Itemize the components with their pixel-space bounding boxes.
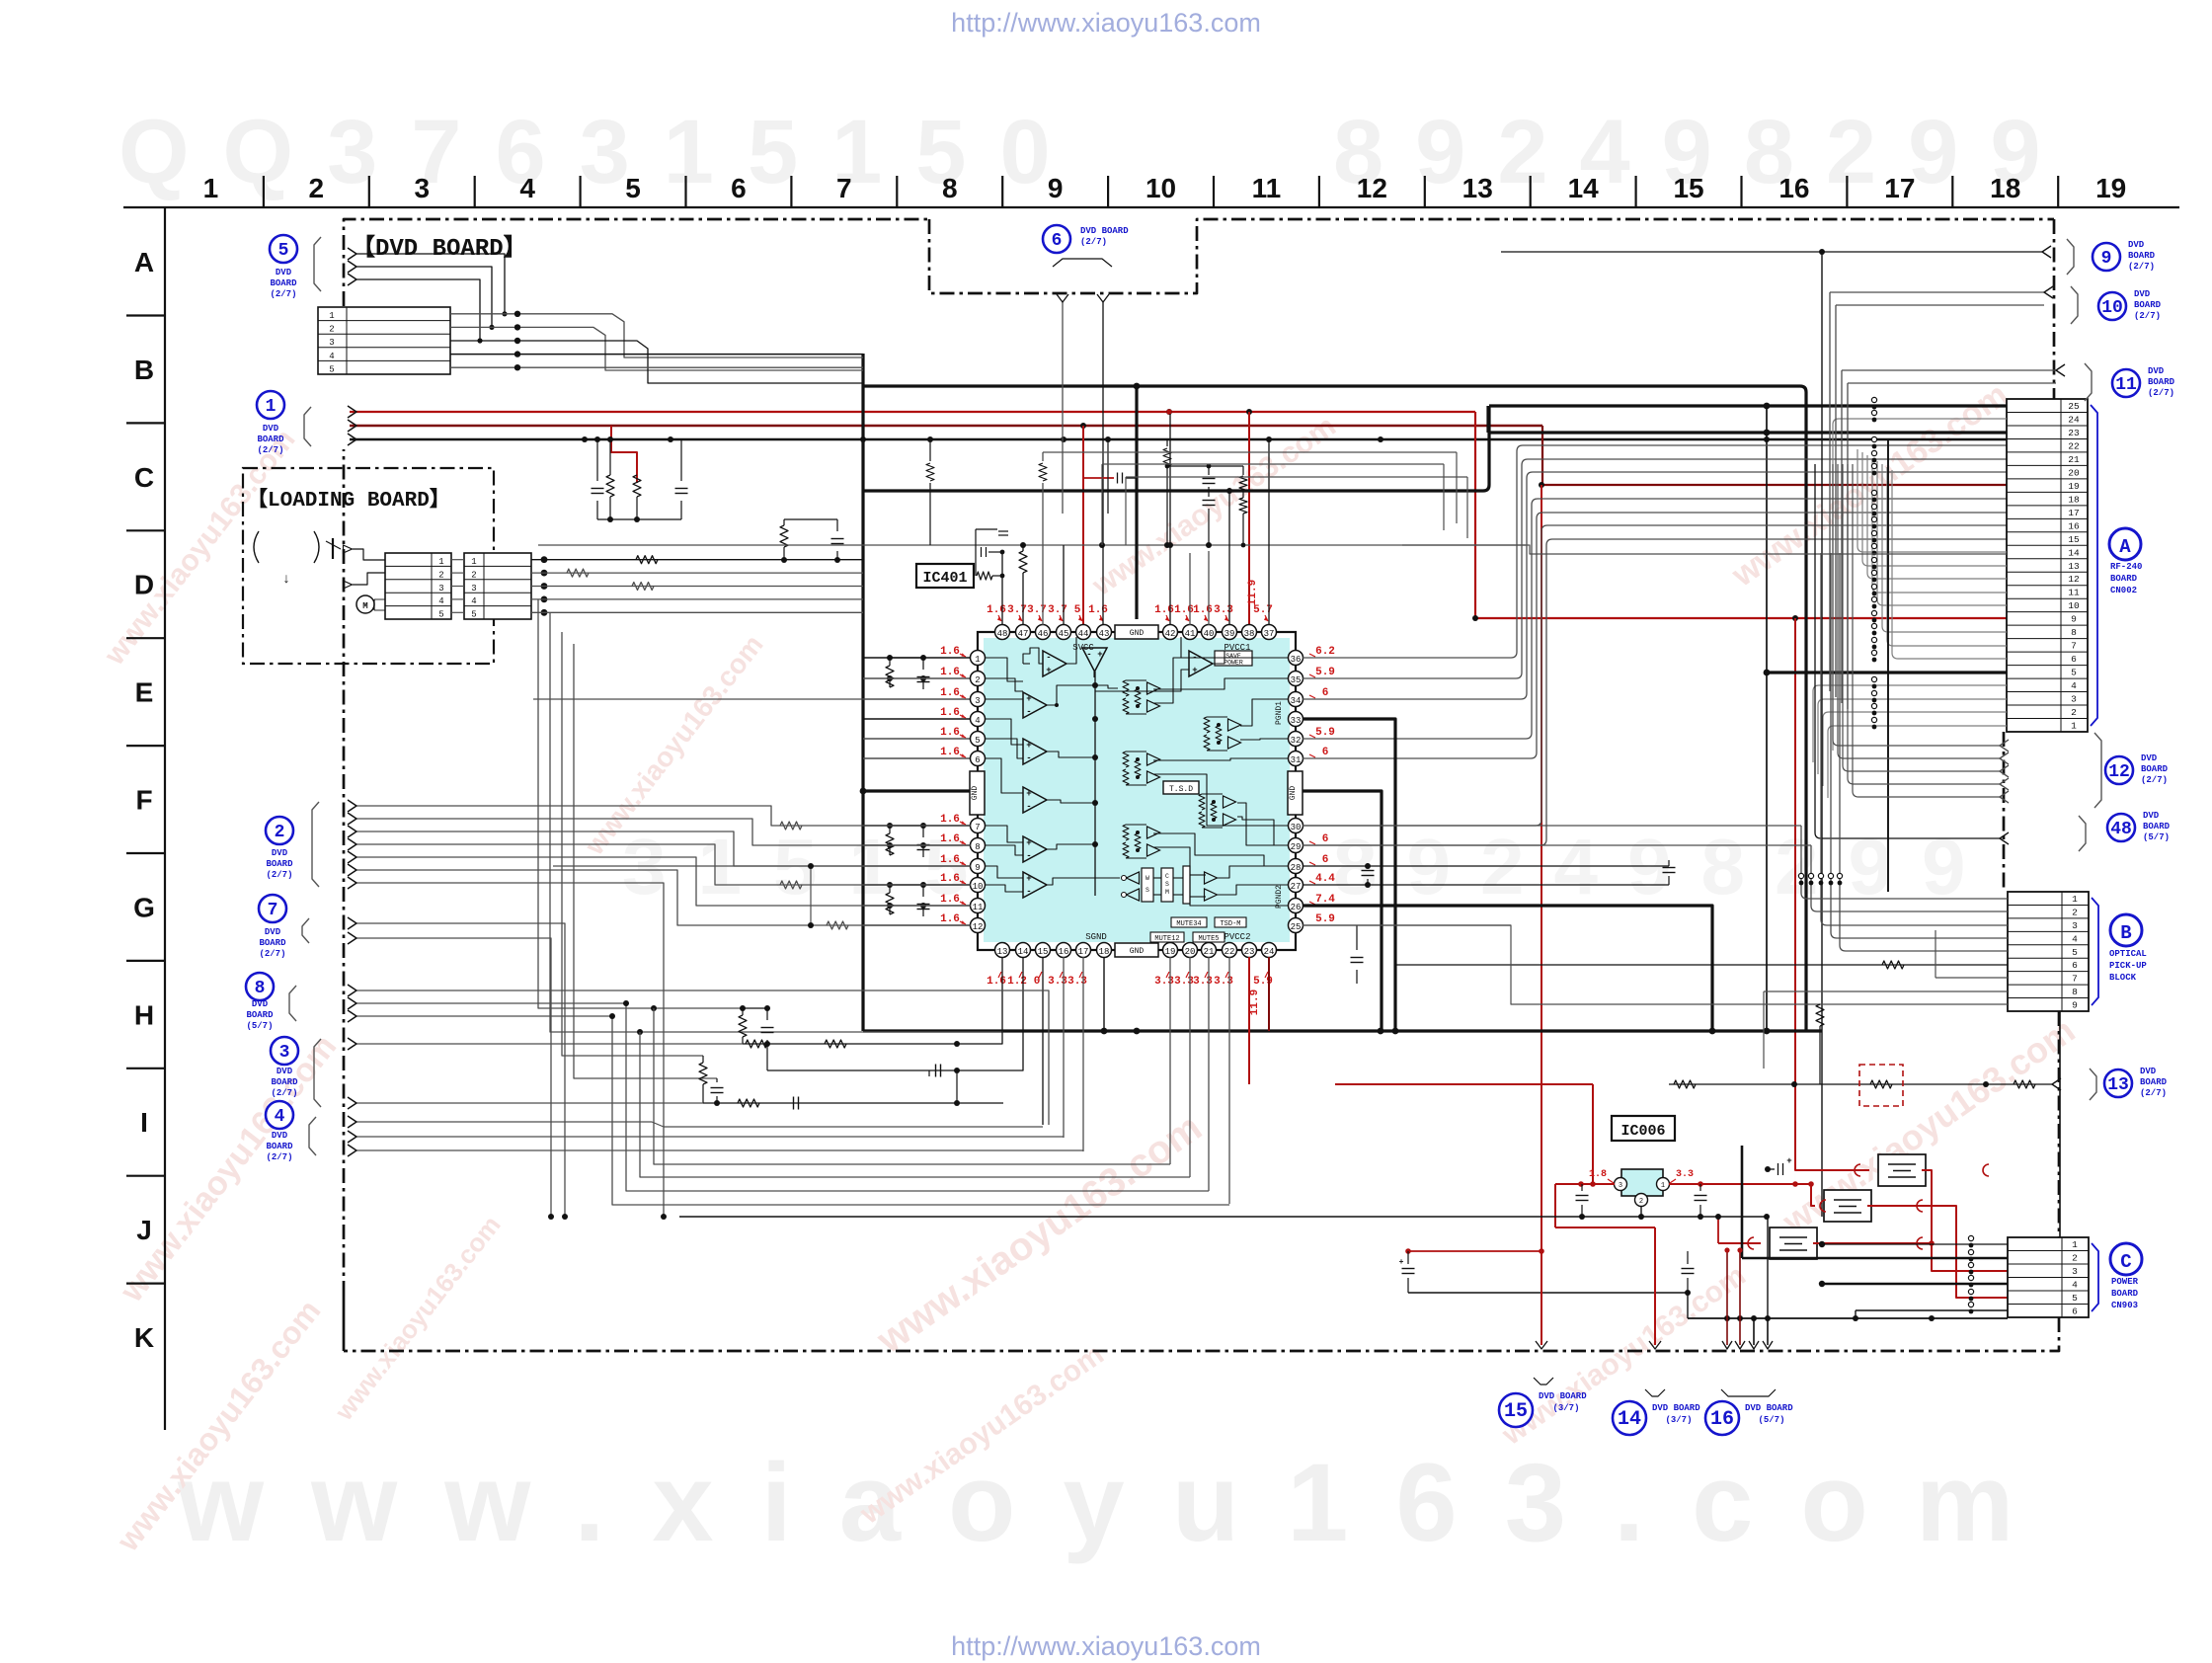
- svg-text:M: M: [362, 601, 367, 611]
- RC clusters below IC401: [742, 1008, 744, 1015]
- svg-text:1.6: 1.6: [940, 894, 960, 906]
- svg-text:4: 4: [2071, 680, 2077, 691]
- IC401 pin 38: [1242, 625, 1257, 640]
- svg-text:S: S: [1165, 881, 1169, 888]
- label 15 circled: [1499, 1393, 1533, 1427]
- svg-text:44: 44: [1078, 629, 1089, 639]
- svg-text:IC401: IC401: [922, 570, 967, 587]
- svg-text:A: A: [134, 247, 154, 277]
- svg-text:17: 17: [2068, 508, 2079, 518]
- svg-text:48: 48: [2110, 820, 2132, 839]
- svg-text:1.6: 1.6: [940, 913, 960, 925]
- wires bundle into connector A rows: [1857, 449, 1863, 552]
- svg-text:19: 19: [2095, 173, 2126, 203]
- wire label3 row2: [355, 1102, 703, 1104]
- svg-text:SGND: SGND: [1085, 932, 1107, 942]
- wire to label 48: [1815, 464, 1821, 838]
- svg-text:【DVD BOARD】: 【DVD BOARD】: [352, 234, 527, 263]
- thick wire right GND: [1303, 791, 1382, 1031]
- svg-text:27: 27: [1291, 882, 1302, 892]
- svg-text:4: 4: [438, 596, 443, 606]
- DAC slab: [1183, 866, 1190, 904]
- svg-text:14: 14: [1618, 1408, 1641, 1431]
- svg-text:23: 23: [2068, 428, 2080, 438]
- label 7 chevrons: [348, 917, 356, 929]
- svg-text:6: 6: [2072, 960, 2078, 971]
- svg-text:DVD: DVD: [252, 999, 269, 1009]
- svg-text:DVD BOARD: DVD BOARD: [1745, 1403, 1793, 1413]
- label 16 circled: [1705, 1401, 1739, 1435]
- svg-text:11: 11: [973, 903, 984, 912]
- label 3 chevrons: [348, 1038, 356, 1050]
- svg-text:1.6: 1.6: [940, 727, 960, 739]
- svg-text:A: A: [2119, 536, 2131, 558]
- svg-text:3: 3: [329, 338, 334, 348]
- top ruler with column numbers 1-19: [123, 206, 2179, 208]
- svg-text:3.3: 3.3: [1174, 976, 1194, 988]
- label 5 circled: [270, 235, 297, 263]
- svg-text:http://www.xiaoyu163.com: http://www.xiaoyu163.com: [951, 8, 1261, 38]
- IC401 pin 19: [1163, 943, 1178, 958]
- IC401 pin 35: [1289, 672, 1303, 686]
- svg-text:+: +: [1097, 650, 1102, 660]
- svg-text:5: 5: [1074, 604, 1081, 616]
- svg-text:BOARD: BOARD: [266, 1142, 293, 1151]
- svg-text:11.9: 11.9: [1249, 990, 1261, 1015]
- svg-text:20: 20: [2068, 467, 2080, 478]
- svg-text:G: G: [133, 892, 155, 922]
- IC401 pin 27: [1289, 878, 1303, 893]
- svg-text:1.6: 1.6: [987, 976, 1006, 988]
- IC401 SAVE POWER box: [1215, 651, 1252, 666]
- IC401 pin 8: [971, 838, 986, 853]
- IC401 pin 33: [1289, 712, 1303, 727]
- loading board connector pair: [385, 553, 451, 619]
- junction dots on buses: [1166, 409, 1172, 415]
- DVD board title: [352, 234, 527, 263]
- IC401 pin 31: [1289, 752, 1303, 766]
- svg-text:34: 34: [1291, 696, 1302, 706]
- IC401 pin 26: [1289, 899, 1303, 913]
- wire red riser to pin44: [1082, 426, 1084, 625]
- svg-text:(2/7): (2/7): [1080, 237, 1107, 247]
- svg-text:DVD: DVD: [2140, 1067, 2157, 1076]
- svg-text:7: 7: [2071, 641, 2077, 652]
- svg-text:1: 1: [1661, 1182, 1665, 1190]
- IC401 ref label box: [916, 564, 974, 588]
- svg-text:7: 7: [975, 823, 980, 832]
- internal node line: [1094, 672, 1096, 896]
- svg-text:38: 38: [1244, 629, 1255, 639]
- svg-text:6: 6: [1322, 854, 1329, 866]
- label 2 circled: [266, 817, 293, 844]
- wires above IC401: [538, 544, 1526, 546]
- svg-text:W: W: [1145, 875, 1149, 882]
- svg-text:J: J: [136, 1215, 152, 1245]
- svg-text:-: -: [1026, 753, 1031, 763]
- IC401 GND box bottom: [1115, 943, 1158, 957]
- IC401 pin 41: [1183, 625, 1198, 640]
- IC401 GND box top: [1115, 625, 1158, 639]
- IC401 pin 25: [1289, 918, 1303, 933]
- thick wire pin33: [1303, 719, 1395, 1031]
- svg-text:(3/7): (3/7): [1552, 1403, 1579, 1413]
- svg-text:-: -: [1046, 653, 1051, 663]
- svg-text:1.8: 1.8: [1589, 1169, 1607, 1180]
- svg-text:5.9: 5.9: [1315, 667, 1335, 678]
- connector A bracket: [2091, 405, 2097, 726]
- wire red path to connector A row 9: [1475, 412, 2007, 618]
- wire red riser x1818: [1794, 618, 1796, 1091]
- svg-text:+: +: [1026, 694, 1031, 704]
- label 9 circled: [2093, 243, 2120, 271]
- svg-text:9: 9: [975, 863, 980, 873]
- IC401 pin 9: [971, 859, 986, 874]
- connector C (POWER BOARD CN903): [2008, 1237, 2089, 1317]
- svg-text:1.6: 1.6: [940, 833, 960, 845]
- svg-text:PGND2: PGND2: [1275, 885, 1284, 909]
- IC401 pin 44: [1076, 625, 1091, 640]
- wires to labels 9-11: [1501, 251, 2042, 253]
- svg-text:2: 2: [975, 675, 980, 685]
- svg-text:17: 17: [1078, 947, 1089, 957]
- svg-text:28: 28: [1291, 863, 1302, 873]
- svg-text:19: 19: [1165, 947, 1176, 957]
- svg-text:4: 4: [329, 352, 334, 361]
- svg-text:6: 6: [2072, 1307, 2078, 1317]
- IC401 pin 4: [971, 712, 986, 727]
- red power distribution with EMI filters: [1794, 1170, 1796, 1184]
- svg-text:DVD: DVD: [272, 1131, 288, 1141]
- svg-text:16: 16: [1710, 1408, 1734, 1431]
- svg-text:1: 1: [471, 557, 476, 567]
- WS box: [1142, 868, 1153, 902]
- svg-text:BOARD: BOARD: [2143, 822, 2171, 831]
- svg-text:PICK-UP: PICK-UP: [2109, 961, 2147, 971]
- mixer cell 1232,742: [1228, 719, 1241, 731]
- svg-text:3.7: 3.7: [1007, 604, 1027, 616]
- svg-text:7.4: 7.4: [1315, 894, 1335, 906]
- svg-text:-: -: [1086, 650, 1091, 660]
- svg-text:2: 2: [2072, 1253, 2078, 1264]
- vertical line B-C right: [2059, 1011, 2061, 1237]
- svg-text:6: 6: [731, 173, 747, 203]
- wire thick net top: [863, 384, 1800, 387]
- svg-text:K: K: [134, 1322, 154, 1353]
- svg-text:19: 19: [2068, 481, 2080, 492]
- svg-text:1.6: 1.6: [987, 604, 1006, 616]
- IC401 pin 22: [1223, 943, 1237, 958]
- svg-text:B: B: [2120, 922, 2131, 944]
- gnd rail y1232: [679, 1216, 1768, 1218]
- thick wire pin26: [1303, 906, 1712, 1031]
- left ruler with row letters A-K: [164, 207, 166, 1430]
- svg-text:2: 2: [1639, 1198, 1643, 1206]
- svg-text:(2/7): (2/7): [257, 445, 283, 455]
- label 4 circled: [266, 1101, 293, 1129]
- svg-text:31: 31: [1291, 755, 1302, 765]
- svg-text:16: 16: [2068, 520, 2080, 531]
- svg-text:-: -: [1026, 707, 1031, 717]
- svg-text:12: 12: [2068, 574, 2080, 585]
- svg-text:E: E: [135, 677, 154, 708]
- IC401 pin 40: [1202, 625, 1217, 640]
- svg-text:4: 4: [275, 1107, 285, 1127]
- svg-text:12: 12: [1357, 173, 1387, 203]
- svg-text:(2/7): (2/7): [259, 949, 285, 959]
- svg-text:4: 4: [2072, 933, 2078, 944]
- out buffers: [1205, 872, 1218, 884]
- svg-text:17: 17: [1884, 173, 1915, 203]
- svg-text:3.3: 3.3: [1048, 976, 1067, 988]
- svg-text:↓: ↓: [282, 572, 290, 588]
- IC401 pin 29: [1289, 838, 1303, 853]
- svg-text:11: 11: [2115, 375, 2137, 395]
- svg-text:9: 9: [1048, 173, 1064, 203]
- svg-text:6: 6: [1322, 833, 1329, 845]
- svg-text:1: 1: [266, 397, 276, 417]
- svg-text:4: 4: [471, 596, 476, 606]
- IC401 pin 42: [1163, 625, 1178, 640]
- svg-text:3: 3: [279, 1043, 290, 1063]
- svg-text:BOARD: BOARD: [259, 938, 286, 948]
- IC401 pin 13: [995, 943, 1010, 958]
- svg-text:(5/7): (5/7): [1758, 1415, 1784, 1425]
- wires label8: [355, 990, 1049, 1125]
- svg-text:6: 6: [1322, 747, 1329, 758]
- svg-text:22: 22: [1224, 947, 1235, 957]
- svg-text:3.3: 3.3: [1154, 976, 1174, 988]
- svg-text:8: 8: [2071, 627, 2077, 638]
- wires label7 long: [355, 923, 565, 1217]
- op-amp row 810: [1023, 787, 1047, 813]
- svg-text:7: 7: [2072, 974, 2078, 985]
- svg-text:DVD: DVD: [2148, 366, 2165, 376]
- svg-text:+: +: [1046, 666, 1051, 675]
- svg-text:4.4: 4.4: [1315, 873, 1335, 885]
- label 14 circled: [1613, 1401, 1646, 1435]
- svg-text:3: 3: [2072, 920, 2078, 931]
- IC401 GND box left: [970, 771, 985, 815]
- svg-text:12: 12: [973, 922, 984, 932]
- connector A (RF-240 BOARD CN002): [2007, 399, 2088, 732]
- staircase wires to IC bottom pins: [654, 1008, 1170, 1164]
- svg-text:PVCC2: PVCC2: [1224, 932, 1250, 942]
- svg-text:http://www.xiaoyu163.com: http://www.xiaoyu163.com: [951, 1631, 1261, 1661]
- svg-text:BOARD: BOARD: [271, 1077, 298, 1087]
- IC401 pin 48: [995, 625, 1010, 640]
- svg-text:14: 14: [1018, 947, 1029, 957]
- svg-text:CN002: CN002: [2110, 586, 2137, 595]
- svg-text:3.3: 3.3: [1067, 976, 1087, 988]
- row14 jog wire: [1402, 545, 2007, 554]
- wire thick row5 feed: [1767, 671, 2007, 673]
- IC401 pin 37: [1262, 625, 1277, 640]
- svg-text:5: 5: [438, 610, 443, 620]
- svg-text:1: 1: [2072, 1239, 2078, 1250]
- svg-text:TSD-M: TSD-M: [1220, 920, 1240, 928]
- svg-text:BOARD: BOARD: [2140, 1077, 2168, 1087]
- IC401 pin 15: [1036, 943, 1051, 958]
- svg-text:1.6: 1.6: [940, 854, 960, 866]
- svg-text:12: 12: [2108, 762, 2130, 782]
- svg-text:24: 24: [2068, 414, 2080, 425]
- svg-text:13: 13: [2068, 561, 2080, 572]
- svg-text:2: 2: [2071, 707, 2077, 718]
- svg-text:+: +: [1026, 874, 1031, 884]
- svg-text:BOARD: BOARD: [2134, 300, 2162, 310]
- IC401 pin 47: [1016, 625, 1031, 640]
- svg-text:1.6: 1.6: [1193, 604, 1213, 616]
- svg-text:18: 18: [1990, 173, 2020, 203]
- IC401 pin 39: [1223, 625, 1237, 640]
- svg-text:5.9: 5.9: [1315, 727, 1335, 739]
- wire row to label 13 with dashed-box resistor: [1335, 1083, 1593, 1085]
- wires from loading board connector: [541, 556, 548, 563]
- svg-text:3: 3: [414, 173, 430, 203]
- svg-text:OPTICAL: OPTICAL: [2109, 949, 2147, 959]
- wire red bus 2: [350, 425, 1542, 427]
- svg-text:25: 25: [1291, 922, 1302, 932]
- svg-text:10: 10: [973, 882, 984, 892]
- svg-text:3: 3: [2071, 694, 2077, 705]
- svg-text:2: 2: [329, 325, 334, 335]
- label 11 circled: [2112, 369, 2140, 397]
- label 10 circled: [2098, 292, 2126, 320]
- svg-text:6: 6: [975, 755, 980, 765]
- wires from top-left connector: [348, 248, 356, 260]
- svg-text:5: 5: [2071, 668, 2077, 678]
- IC401 pin 14: [1016, 943, 1031, 958]
- svg-text:11: 11: [2068, 588, 2080, 598]
- IC401 pin 36: [1289, 651, 1303, 666]
- svg-text:(2/7): (2/7): [270, 289, 296, 299]
- svg-text:PGND1: PGND1: [1275, 701, 1284, 725]
- svg-text:3.3: 3.3: [1193, 976, 1213, 988]
- connector CN (DVD board top-left) 5-pin: [318, 307, 450, 374]
- svg-text:9: 9: [2101, 249, 2112, 269]
- label 1 circled: [257, 391, 284, 419]
- svg-text:8: 8: [942, 173, 958, 203]
- IC401 pin 16: [1057, 943, 1071, 958]
- svg-text:1: 1: [975, 655, 980, 665]
- svg-text:BOARD: BOARD: [266, 859, 293, 869]
- op-amp A3: [1189, 651, 1213, 676]
- svg-text:1.2: 1.2: [1007, 976, 1027, 988]
- svg-text:1.6: 1.6: [940, 814, 960, 826]
- svg-text:+: +: [1786, 1156, 1791, 1166]
- IC401 pin 5: [971, 732, 986, 747]
- svg-text:DVD: DVD: [276, 1067, 293, 1076]
- red wiring to IC006 area: [1248, 957, 1250, 1084]
- svg-text:(3/7): (3/7): [1665, 1415, 1692, 1425]
- label 48 circled: [2107, 814, 2135, 841]
- red bus link: [1166, 409, 1172, 415]
- svg-text:47: 47: [1018, 629, 1029, 639]
- label 1 chevrons: [348, 406, 356, 418]
- svg-text:(2/7): (2/7): [2141, 775, 2168, 785]
- svg-text:1: 1: [2071, 721, 2077, 732]
- svg-text:2: 2: [471, 570, 476, 580]
- svg-text:BOARD: BOARD: [2128, 251, 2156, 261]
- svg-text:9: 9: [2072, 1000, 2078, 1011]
- svg-text:C: C: [2120, 1251, 2131, 1273]
- mixer cell 1227,820: [1224, 796, 1236, 808]
- svg-text:10: 10: [2101, 298, 2123, 318]
- svg-text:(2/7): (2/7): [2148, 388, 2174, 398]
- IC401 pin 18: [1097, 943, 1112, 958]
- wires exiting bottom of board: [1540, 1227, 1542, 1345]
- label 8 circled: [246, 973, 274, 1000]
- svg-text:POWER: POWER: [1224, 660, 1243, 667]
- svg-text:41: 41: [1185, 629, 1196, 639]
- svg-text:7: 7: [836, 173, 852, 203]
- svg-text:3: 3: [2072, 1266, 2078, 1277]
- svg-text:35: 35: [1291, 675, 1302, 685]
- svg-text:(2/7): (2/7): [266, 1152, 292, 1162]
- test point marks column A: [1871, 397, 1876, 402]
- label 6 circled: [1043, 225, 1070, 253]
- svg-text:6: 6: [1052, 231, 1063, 251]
- svg-text:B: B: [134, 355, 154, 385]
- wires below IC401 pins: [743, 957, 1002, 1044]
- IC401 T.S.D box: [1163, 781, 1199, 794]
- RC pair at IC pins 7-8: [889, 826, 891, 833]
- wires into connector B: [1801, 826, 1807, 899]
- svg-text:15: 15: [1673, 173, 1703, 203]
- svg-text:+: +: [1026, 741, 1031, 751]
- svg-text:DVD: DVD: [272, 848, 288, 858]
- IC401 pin 32: [1289, 732, 1303, 747]
- wire red riser x1561: [1540, 485, 1542, 1227]
- RC pair at IC pins 10-11: [889, 885, 891, 893]
- svg-text:1: 1: [2072, 894, 2078, 905]
- staircase wires label2 to IC pins 7-12: [355, 806, 971, 826]
- svg-text:43: 43: [1099, 629, 1110, 639]
- svg-text:1.6: 1.6: [1088, 604, 1108, 616]
- svg-text:3.3: 3.3: [1214, 976, 1233, 988]
- svg-text:1.6: 1.6: [940, 873, 960, 885]
- svg-text:RF-240: RF-240: [2110, 562, 2142, 572]
- svg-text:DVD BOARD: DVD BOARD: [1652, 1403, 1700, 1413]
- svg-text:+: +: [1192, 666, 1197, 675]
- svg-text:36: 36: [1291, 655, 1302, 665]
- IC401 MUTE boxes: [1171, 917, 1207, 927]
- svg-text:21: 21: [1204, 947, 1215, 957]
- svg-text:7: 7: [268, 901, 278, 920]
- op-amp row 761: [1023, 739, 1047, 764]
- inverters: [1127, 872, 1140, 884]
- svg-text:5: 5: [329, 364, 334, 374]
- svg-text:-: -: [1026, 802, 1031, 812]
- svg-text:BOARD: BOARD: [270, 278, 297, 288]
- svg-text:5.9: 5.9: [1315, 913, 1335, 925]
- svg-text:2: 2: [2072, 907, 2078, 917]
- RC stub pair to row1: [783, 519, 785, 525]
- svg-text:13: 13: [2107, 1075, 2129, 1095]
- svg-text:25: 25: [2068, 401, 2080, 412]
- IC401 pin 23: [1242, 943, 1257, 958]
- svg-text:14: 14: [2068, 547, 2080, 558]
- svg-text:37: 37: [1264, 629, 1275, 639]
- svg-text:18: 18: [1099, 947, 1110, 957]
- svg-text:40: 40: [1204, 629, 1215, 639]
- svg-text:GND: GND: [1289, 786, 1298, 801]
- wire thick net row23: [1486, 406, 1489, 433]
- svg-text:1.6: 1.6: [1154, 604, 1174, 616]
- svg-text:C: C: [134, 462, 154, 493]
- svg-text:4: 4: [519, 173, 535, 203]
